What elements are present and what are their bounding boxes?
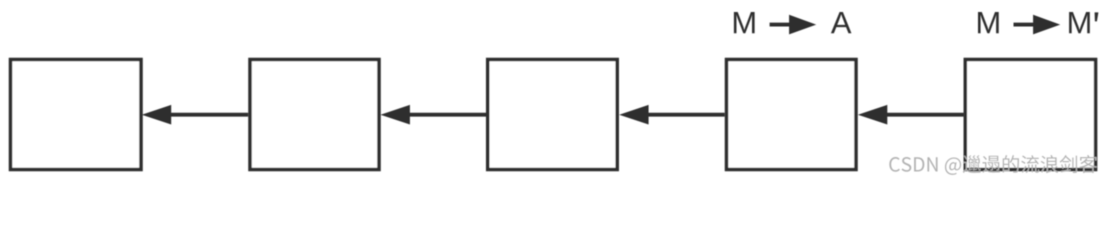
node box 4: [727, 60, 857, 170]
node box 3: [488, 60, 618, 170]
label small arrow M to M-prime: [1014, 15, 1061, 35]
apostrophe of M-prime: [1095, 12, 1099, 21]
watermark hanzi 6: [1060, 155, 1077, 173]
pointer arrow box5 to box4: [858, 105, 964, 125]
watermark letter S: [902, 157, 912, 172]
watermark letter C: [889, 157, 900, 172]
node box 1: [11, 60, 142, 170]
watermark hanzi 3: [1003, 155, 1019, 173]
watermark CSDN handle: [889, 155, 1097, 175]
watermark letter D: [914, 157, 924, 171]
label M over box 4: [734, 12, 755, 33]
watermark letter @: [945, 157, 961, 174]
label small arrow M to A: [770, 15, 817, 35]
label M over box 5: [978, 12, 999, 33]
label M-prime over box 5: [1069, 12, 1090, 33]
pointer arrow box3 to box2: [381, 105, 487, 125]
pointer arrow box2 to box1: [142, 105, 248, 125]
watermark hanzi 2: [982, 156, 1000, 173]
label A over box 4: [831, 12, 852, 33]
watermark letter N: [927, 157, 937, 171]
watermark hanzi 4: [1021, 155, 1039, 173]
watermark hanzi 7: [1079, 155, 1097, 173]
watermark hanzi 5: [1041, 155, 1059, 173]
node box 5: [965, 60, 1095, 170]
watermark hanzi 1: [963, 155, 981, 173]
node box 2: [250, 60, 379, 170]
pointer arrow box4 to box3: [619, 105, 725, 125]
